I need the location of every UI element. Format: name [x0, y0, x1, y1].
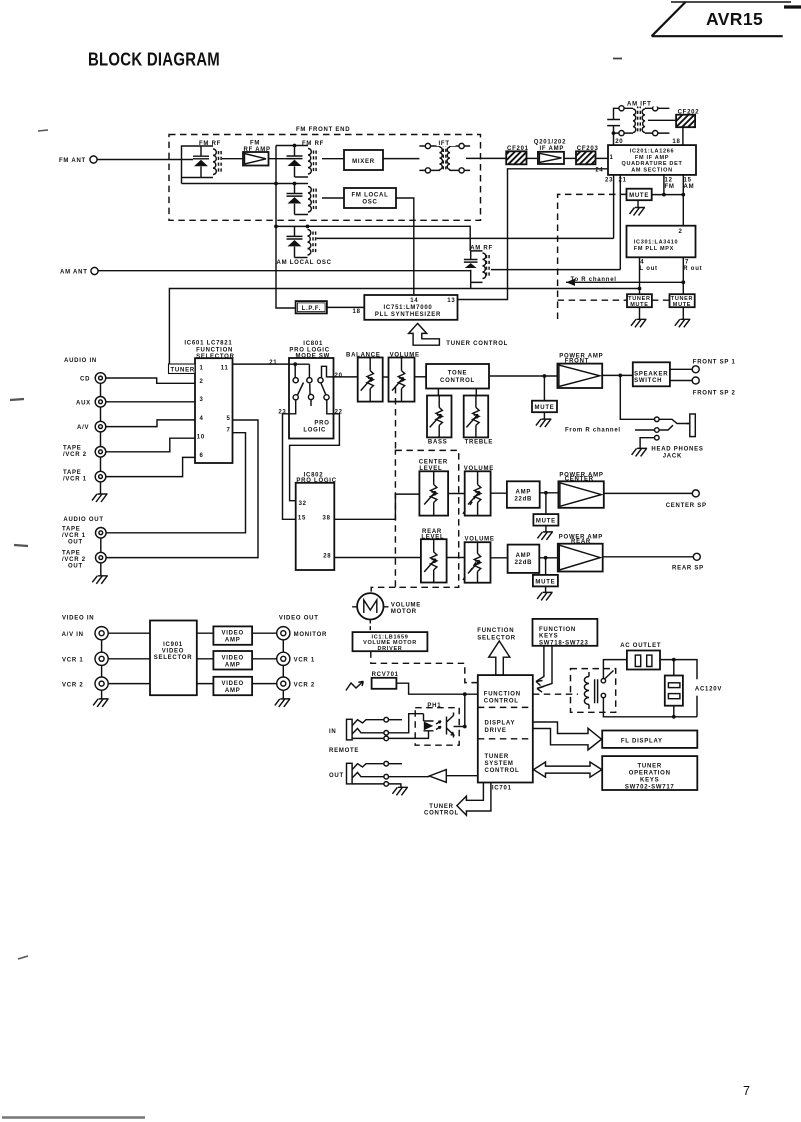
svg-text:1: 1 — [610, 155, 614, 161]
L.P.F. — [296, 301, 327, 313]
svg-text:IC601 LC7821: IC601 LC7821 — [184, 341, 232, 347]
svg-text:JACK: JACK — [663, 453, 682, 459]
wire pin20 to balance — [334, 376, 358, 378]
svg-text:AM SECTION: AM SECTION — [631, 167, 673, 173]
wire AM IFT to IC201 pin 20 — [613, 133, 615, 145]
svg-text:24: 24 — [595, 167, 603, 173]
dashed mute control boundary — [558, 194, 670, 320]
svg-text:2: 2 — [679, 229, 683, 235]
svg-text:MONITOR: MONITOR — [294, 632, 327, 638]
svg-text:R out: R out — [683, 266, 702, 272]
svg-text:AMP: AMP — [225, 688, 241, 694]
REAR SP output — [603, 553, 704, 571]
VIDEO AMP 2 — [197, 651, 277, 670]
svg-text:CONTROL: CONTROL — [424, 811, 459, 817]
svg-text:AUDIO IN: AUDIO IN — [64, 358, 97, 364]
svg-text:12: 12 — [665, 178, 673, 184]
buffer amp to remote OUT — [389, 770, 478, 783]
wire R out to tuner mute — [681, 257, 685, 294]
wire tank3 to FM local osc — [322, 197, 344, 199]
svg-text:22dB: 22dB — [514, 496, 532, 502]
svg-text:DRIVE: DRIVE — [485, 728, 507, 734]
svg-text:OUT: OUT — [68, 564, 83, 570]
wires video in to selector — [108, 633, 150, 683]
dashed driver to function control — [371, 651, 478, 682]
TONE CONTROL — [426, 364, 489, 389]
svg-text:SELECTOR: SELECTOR — [477, 635, 516, 641]
wire TAPE/VCR2 to pin10 — [106, 438, 195, 452]
FL DISPLAY — [602, 731, 697, 748]
svg-text:TONE: TONE — [448, 371, 468, 377]
function selector block arrow (up) — [477, 628, 516, 675]
FM FRONT END dashed box — [169, 124, 481, 221]
svg-text:AM LOCAL OSC: AM LOCAL OSC — [277, 260, 332, 266]
BASS pot — [427, 389, 452, 446]
FM RF AMP — [243, 141, 271, 166]
svg-text:A/V: A/V — [77, 425, 89, 431]
IC1 LB1659 volume motor driver — [353, 632, 428, 652]
wire IC201 pin 24 to PLL pin 13 — [458, 167, 609, 299]
HEAD PHONES JACK label — [651, 447, 703, 460]
svg-text:VCR 2: VCR 2 — [62, 682, 83, 688]
svg-text:AMP: AMP — [225, 662, 241, 668]
svg-text:4: 4 — [640, 260, 644, 266]
IFT transformer — [419, 139, 470, 173]
wire AUX to pin3 — [106, 401, 195, 403]
jack MONITOR — [277, 627, 327, 640]
remote IR arrow (RCV701) — [346, 681, 363, 690]
svg-text:1: 1 — [200, 366, 204, 372]
svg-text:AVR15: AVR15 — [706, 9, 763, 29]
display drive block arrow — [533, 722, 602, 750]
left margin scan marks — [10, 59, 622, 960]
svg-text:/VCR 1: /VCR 1 — [62, 533, 86, 539]
svg-text:A/V IN: A/V IN — [62, 632, 84, 638]
svg-text:7: 7 — [743, 1084, 751, 1098]
svg-text:OUT: OUT — [68, 540, 83, 546]
AM local osc tuned circuit — [276, 225, 332, 267]
dashed function control to relay — [533, 693, 578, 695]
wire FM local osc to PLL pin14 — [396, 198, 414, 295]
op-amp IC201 LA1266 — [608, 139, 696, 175]
wire relay to AC bus bottom — [603, 698, 697, 719]
svg-text:TUNER: TUNER — [171, 367, 195, 373]
REAR LEVEL pot — [421, 529, 447, 583]
TREBLE pot — [464, 389, 493, 446]
TUNER MUTE left — [627, 294, 652, 327]
wire balance-volume — [383, 376, 389, 378]
svg-text:/VCR 1: /VCR 1 — [63, 477, 87, 483]
wire pin23 to AM local osc line — [613, 175, 615, 239]
svg-text:AMP: AMP — [516, 553, 532, 559]
REAR VOLUME pot — [465, 537, 495, 583]
svg-text:IFT: IFT — [439, 141, 450, 147]
svg-text:IN: IN — [329, 729, 337, 735]
svg-text:PRO: PRO — [314, 421, 329, 427]
svg-text:23: 23 — [605, 178, 613, 184]
svg-text:AM IFT: AM IFT — [627, 102, 652, 108]
FM RF tuned circuit 1 (varactor + coil) — [182, 141, 222, 184]
svg-text:SWITCH: SWITCH — [634, 378, 662, 384]
op-amp IC802 pro logic — [296, 473, 337, 571]
video-in ground chain — [93, 640, 109, 707]
svg-text:To R channel: To R channel — [571, 277, 617, 283]
svg-text:L out: L out — [640, 266, 658, 272]
BALANCE pot — [346, 353, 383, 402]
svg-text:MUTE: MUTE — [535, 579, 555, 585]
svg-text:MUTE: MUTE — [536, 519, 556, 525]
svg-text:LOGIC: LOGIC — [303, 427, 326, 433]
VIDEO AMP 1 — [197, 626, 277, 644]
op-amp IC701 system control — [478, 675, 533, 791]
svg-text:FM LOCAL: FM LOCAL — [352, 193, 389, 199]
RCV701 — [372, 672, 399, 689]
svg-text:IC201:LA1266: IC201:LA1266 — [630, 149, 674, 155]
svg-text:SW718-SW723: SW718-SW723 — [539, 640, 589, 646]
svg-text:AMP: AMP — [225, 638, 241, 644]
svg-text:TAPE: TAPE — [62, 527, 81, 533]
svg-text:AM: AM — [684, 184, 695, 190]
audio-out ground — [92, 538, 108, 584]
svg-text:/VCR 2: /VCR 2 — [63, 452, 87, 458]
AM IFT transformer — [607, 99, 669, 136]
svg-text:IC751:LM7000: IC751:LM7000 — [383, 305, 432, 311]
svg-text:REAR SP: REAR SP — [672, 566, 704, 572]
wire motor to driver — [369, 620, 371, 633]
POWER AMP REAR — [558, 535, 603, 572]
wire IC802 pin38 to center level — [334, 494, 419, 519]
jack TAPE/VCR 2 OUT — [62, 551, 106, 570]
FRONT SP 2 output — [670, 377, 736, 397]
svg-text:14: 14 — [410, 298, 418, 304]
svg-text:FRONT SP 1: FRONT SP 1 — [693, 359, 736, 365]
svg-text:21: 21 — [269, 360, 277, 366]
svg-text:18: 18 — [353, 309, 361, 315]
AM ANT terminal — [60, 267, 98, 275]
wire RF amp to tank2 — [269, 158, 295, 160]
IC201 bottom pin labels — [605, 178, 694, 191]
svg-text:CONTROL: CONTROL — [485, 768, 520, 774]
svg-text:38: 38 — [323, 516, 331, 522]
wire pin11 to mode SW pin21 — [233, 363, 290, 365]
video-out ground chain — [275, 640, 291, 707]
svg-text:AM ANT: AM ANT — [60, 270, 88, 276]
wire tone control to power amp front — [489, 374, 557, 378]
VOLUME pot (main) — [389, 353, 420, 402]
svg-text:AC OUTLET: AC OUTLET — [620, 643, 661, 649]
wire PH1 to control bus — [454, 694, 467, 728]
svg-text:OUT: OUT — [329, 773, 344, 779]
TUNER MUTE right — [670, 294, 695, 327]
svg-text:MUTE: MUTE — [630, 302, 648, 308]
wires function keys to function control — [536, 646, 552, 692]
CENTER SP output — [604, 490, 707, 509]
wire CF203 to IC201 pin 1 — [596, 157, 609, 159]
wire AC outlet to relay contact — [603, 660, 627, 679]
svg-text:OSC: OSC — [362, 200, 377, 206]
svg-text:MOTOR: MOTOR — [391, 609, 417, 615]
svg-text:FUNCTION: FUNCTION — [484, 691, 521, 697]
svg-text:VCR 2: VCR 2 — [294, 682, 315, 688]
svg-text:13: 13 — [447, 298, 455, 304]
svg-text:2: 2 — [200, 379, 204, 385]
AMP 22dB (center) — [507, 481, 540, 508]
svg-text:VOLUME: VOLUME — [391, 602, 421, 608]
svg-text:TAPE: TAPE — [62, 551, 81, 557]
svg-text:TUNER CONTROL: TUNER CONTROL — [446, 341, 508, 347]
CF203 — [576, 146, 599, 164]
svg-text:MUTE: MUTE — [629, 193, 649, 199]
svg-text:TUNER: TUNER — [628, 296, 650, 302]
svg-text:VIDEO: VIDEO — [221, 655, 243, 661]
wire AM IFT to CF202 — [648, 119, 676, 121]
svg-text:BASS: BASS — [428, 440, 448, 446]
wire LPF to PLL pin 18 — [327, 307, 364, 315]
svg-text:RCV701: RCV701 — [372, 672, 399, 678]
svg-text:TUNER: TUNER — [485, 754, 509, 760]
svg-text:DISPLAY: DISPLAY — [485, 721, 516, 727]
svg-text:PLL SYNTHESIZER: PLL SYNTHESIZER — [375, 312, 441, 318]
svg-text:MIXER: MIXER — [352, 159, 375, 165]
svg-text:FM: FM — [250, 141, 260, 147]
wire AC outlet to AC120V plug — [660, 658, 697, 717]
headphone feed wire — [620, 375, 654, 419]
opto coupler PH1 — [415, 703, 459, 745]
svg-text:PRO LOGIC: PRO LOGIC — [289, 348, 329, 354]
SPEAKER SWITCH — [633, 362, 670, 386]
MIXER — [344, 150, 383, 170]
svg-text:22dB: 22dB — [515, 560, 533, 566]
svg-text:Q201/202: Q201/202 — [534, 140, 566, 146]
svg-text:18: 18 — [672, 139, 680, 145]
svg-text:TREBLE: TREBLE — [465, 440, 494, 446]
FM LOCAL OSC — [344, 188, 396, 208]
CENTER VOLUME pot — [464, 466, 494, 515]
jack A/V IN — [62, 627, 109, 640]
wire amp to power amp center — [540, 491, 559, 495]
svg-text:FL DISPLAY: FL DISPLAY — [621, 738, 663, 744]
bidirectional block arrow tuner keys — [534, 762, 602, 777]
wire CF202 to IC201 pin 18 — [682, 127, 684, 145]
IC801 pro logic mode SW — [269, 341, 343, 439]
wire OUT bottom contact to ground — [389, 784, 408, 795]
svg-text:DRIVER: DRIVER — [378, 646, 403, 652]
IC301 output pin labels — [640, 260, 703, 272]
wire mode SW pin23 to IC802 pin15 — [283, 414, 296, 520]
wire mode SW pin22 to IC802 pin32 — [290, 414, 340, 501]
VIDEO AMP 3 — [197, 677, 277, 695]
Q201/202 IF AMP — [534, 140, 566, 165]
svg-text:3: 3 — [200, 397, 204, 403]
FRONT SP 1 output — [670, 359, 736, 373]
svg-text:AMP: AMP — [516, 489, 532, 495]
wire AM RF out to pin21 — [491, 269, 620, 271]
svg-text:HEAD PHONES: HEAD PHONES — [651, 447, 703, 453]
svg-text:FM FRONT END: FM FRONT END — [296, 127, 350, 133]
svg-text:MUTE: MUTE — [535, 405, 555, 411]
wire IFT to CF201 — [466, 157, 506, 159]
wire CD to pin2 — [106, 378, 195, 383]
svg-text:VIDEO: VIDEO — [221, 631, 243, 637]
AMP 22dB (rear) — [508, 545, 540, 573]
AVR15 header tab — [652, 2, 801, 36]
jack A/V — [77, 421, 106, 432]
wire L out to tuner mute — [638, 257, 642, 294]
remote IN jack — [329, 717, 402, 740]
MUTE (front) — [532, 376, 557, 427]
svg-text:REMOTE: REMOTE — [329, 748, 359, 754]
svg-text:SELECTOR: SELECTOR — [196, 354, 235, 360]
POWER AMP FRONT — [557, 354, 603, 389]
svg-text:20: 20 — [335, 373, 343, 379]
svg-text:CENTER SP: CENTER SP — [666, 503, 707, 509]
vertical rail x=276 — [274, 146, 296, 309]
svg-text:FUNCTION: FUNCTION — [477, 628, 514, 634]
svg-text:SELECTOR: SELECTOR — [154, 655, 193, 661]
svg-text:32: 32 — [299, 501, 307, 507]
svg-text:6: 6 — [200, 453, 204, 459]
svg-text:28: 28 — [323, 553, 331, 559]
svg-text:TAPE: TAPE — [63, 470, 82, 476]
tuner control block arrow (up) — [409, 323, 508, 347]
wires rear row — [447, 557, 508, 559]
MUTE (center) — [533, 493, 558, 540]
svg-text:VIDEO OUT: VIDEO OUT — [279, 615, 319, 621]
svg-text:7: 7 — [685, 260, 689, 266]
svg-text:10: 10 — [197, 435, 205, 441]
svg-text:BLOCK DIAGRAM: BLOCK DIAGRAM — [88, 50, 220, 70]
wire pin12 mute — [662, 175, 666, 197]
svg-text:7: 7 — [227, 428, 231, 434]
svg-text:CD: CD — [80, 377, 90, 383]
wire tank1 bottom rail — [182, 183, 277, 185]
svg-text:L.P.F.: L.P.F. — [302, 306, 321, 312]
svg-text:FM IF AMP: FM IF AMP — [635, 155, 669, 161]
svg-text:SPEAKER: SPEAKER — [634, 372, 668, 378]
svg-text:15: 15 — [298, 516, 306, 522]
wire FM ANT to FM RF tank — [97, 159, 193, 161]
svg-text:KEYS: KEYS — [640, 777, 659, 783]
POWER AMP CENTER — [558, 472, 603, 508]
jack CD — [80, 373, 106, 384]
wire AM local osc out to pin23 — [317, 237, 614, 239]
AC120V plug — [665, 676, 722, 706]
op-amp IC601 LC7821 function selector — [169, 341, 235, 464]
svg-text:20: 20 — [615, 139, 623, 145]
IC901 video selector — [150, 621, 197, 696]
svg-text:4: 4 — [200, 416, 204, 422]
wire IF amp to CF203 — [564, 157, 576, 159]
wire pin21 to AM RF line — [619, 175, 621, 270]
MUTE (rear) — [533, 558, 558, 601]
jack TAPE/VCR 1 — [63, 470, 106, 483]
FM ANT terminal — [59, 156, 97, 164]
svg-text:AUX: AUX — [76, 400, 91, 406]
svg-text:VCR 1: VCR 1 — [62, 658, 83, 664]
FM RF tuned circuit 2 — [276, 141, 324, 177]
To R channel arrow — [566, 277, 683, 286]
svg-text:TAPE: TAPE — [63, 445, 82, 451]
CENTER LEVEL pot — [419, 460, 448, 516]
FM local osc tuned circuit — [276, 182, 316, 215]
wire RCV701 to function control — [396, 683, 477, 696]
wires center row — [448, 492, 507, 494]
wire IN jack to PH1 — [389, 714, 430, 739]
svg-text:TUNER: TUNER — [637, 763, 661, 769]
audio-in jack ground chain — [92, 383, 108, 502]
svg-text:AUDIO OUT: AUDIO OUT — [63, 517, 103, 523]
tuner control block arrow (down-left) — [424, 783, 491, 817]
tuner audio bus to function selector — [169, 289, 639, 367]
svg-text:FUNCTION: FUNCTION — [539, 627, 576, 633]
svg-text:IC801: IC801 — [303, 341, 323, 347]
svg-text:SW702-SW717: SW702-SW717 — [625, 784, 675, 790]
svg-text:SYSTEM: SYSTEM — [485, 761, 514, 767]
jack TAPE/VCR 2 — [63, 445, 106, 458]
svg-text:VIDEO: VIDEO — [162, 649, 184, 655]
wire TAPE/VCR1 to pin6 — [106, 457, 195, 476]
bottom-left scan line — [2, 1116, 145, 1118]
svg-text:VIDEO: VIDEO — [221, 681, 243, 687]
svg-text:/VCR 2: /VCR 2 — [62, 557, 86, 563]
CF201 — [506, 146, 529, 164]
jack VCR 1 in — [62, 652, 108, 665]
VOLUME MOTOR — [352, 593, 421, 619]
mode SW internals — [289, 362, 334, 413]
svg-text:QUADRATURE DET: QUADRATURE DET — [621, 161, 682, 167]
wire pin15 to IC301 pin2 — [681, 175, 685, 226]
svg-text:FM ANT: FM ANT — [59, 158, 86, 164]
remote OUT jack — [329, 761, 402, 786]
AM RF tuned circuit — [464, 246, 493, 289]
FUNCTION KEYS SW718-SW723 — [533, 619, 598, 647]
TUNER OPERATION KEYS SW702-SW717 — [602, 756, 697, 790]
wire power amp to speaker switch — [602, 374, 633, 378]
svg-text:CONTROL: CONTROL — [484, 699, 519, 705]
svg-text:FRONT SP 2: FRONT SP 2 — [693, 391, 736, 397]
svg-text:MUTE: MUTE — [673, 302, 691, 308]
svg-text:TUNER: TUNER — [429, 804, 453, 810]
jack VCR 2 out — [277, 677, 315, 690]
svg-text:5: 5 — [227, 416, 231, 422]
wire AM ANT to AM RF — [98, 270, 471, 272]
svg-text:IC301:LA3410: IC301:LA3410 — [634, 240, 678, 246]
svg-text:IC701: IC701 — [492, 785, 512, 791]
svg-text:FM PLL MPX: FM PLL MPX — [634, 246, 674, 252]
svg-text:11: 11 — [221, 366, 229, 372]
svg-text:VCR 1: VCR 1 — [294, 658, 315, 664]
wire AM local osc top to AM RF — [308, 226, 471, 251]
headphone jack plug — [686, 414, 695, 437]
jack TAPE/VCR 1 OUT — [62, 527, 106, 546]
svg-text:15: 15 — [684, 178, 692, 184]
svg-text:KEYS: KEYS — [539, 634, 558, 640]
wire pin7 to TAPE/VCR1 OUT — [106, 433, 246, 533]
MUTE (tuner IF) — [627, 189, 684, 216]
wire volume to tone control — [415, 376, 427, 378]
motor drive dashed linkage — [371, 387, 477, 593]
AC OUTLET — [620, 643, 661, 670]
wire tank1 to RF amp — [222, 158, 243, 160]
jack VCR 1 out — [277, 652, 315, 665]
svg-text:CONTROL: CONTROL — [440, 378, 475, 384]
svg-text:OPERATION: OPERATION — [629, 770, 671, 776]
svg-text:From R channel: From R channel — [565, 428, 621, 434]
svg-text:FUNCTION: FUNCTION — [196, 348, 233, 354]
headphone jack contacts — [632, 417, 690, 456]
wire pin5 to TAPE/VCR2 OUT — [106, 420, 258, 558]
svg-text:AC120V: AC120V — [695, 687, 722, 693]
